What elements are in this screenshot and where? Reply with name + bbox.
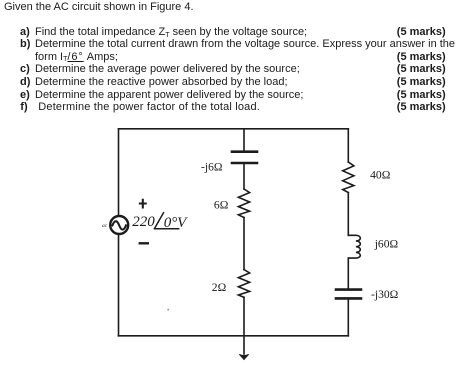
svg-text:ac: ac — [102, 223, 108, 229]
svg-text:j60Ω: j60Ω — [374, 237, 399, 250]
svg-text:40Ω: 40Ω — [370, 169, 391, 182]
svg-text:0°V: 0°V — [164, 215, 188, 231]
svg-text:-j30Ω: -j30Ω — [371, 288, 399, 301]
svg-text:-j6Ω: -j6Ω — [201, 161, 223, 174]
svg-text:6Ω: 6Ω — [214, 199, 229, 212]
svg-text:220: 220 — [132, 214, 155, 230]
svg-text:2Ω: 2Ω — [212, 281, 227, 294]
